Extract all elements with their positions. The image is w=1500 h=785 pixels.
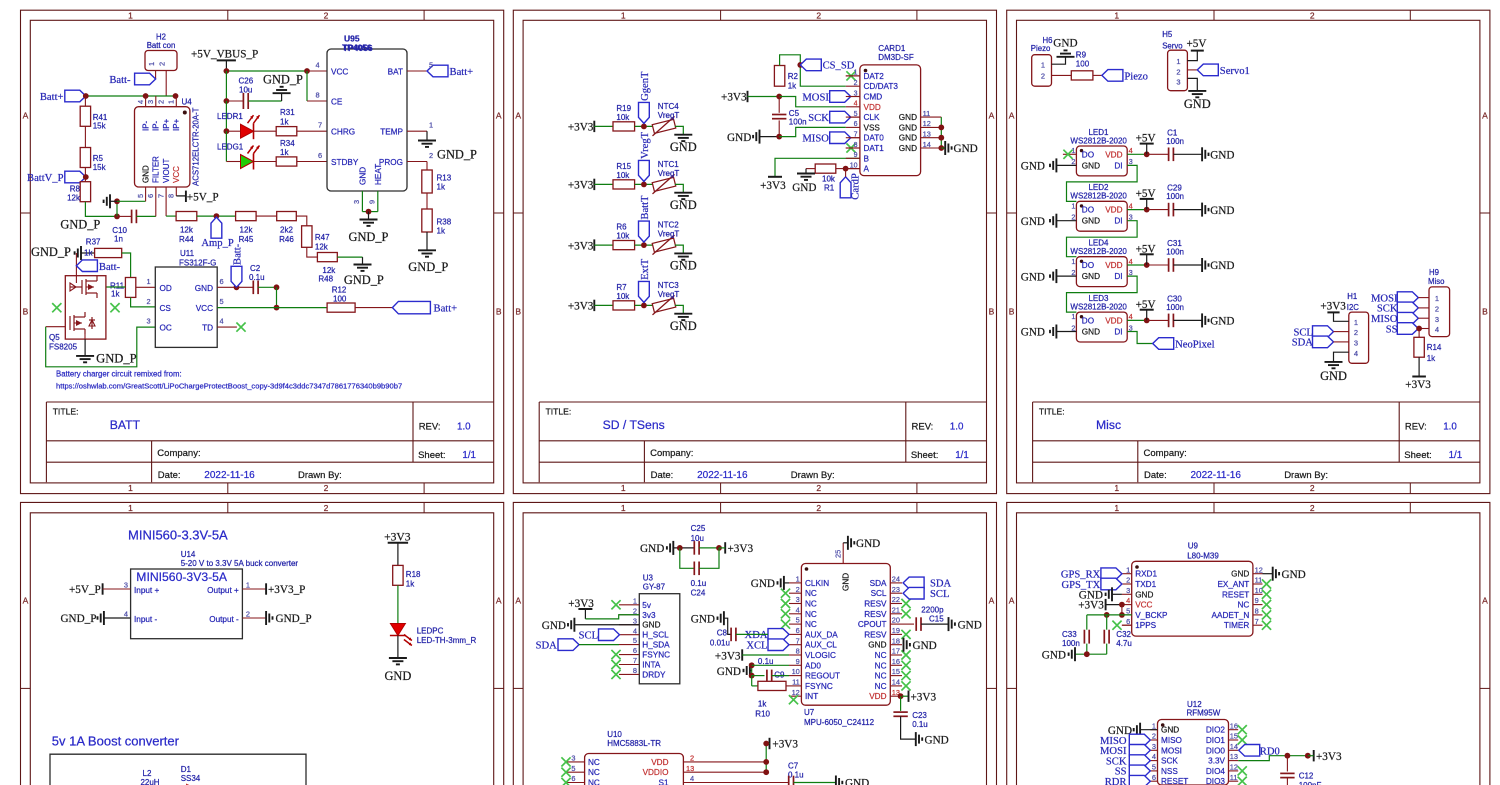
svg-text:10k: 10k [616, 113, 630, 122]
svg-text:10k: 10k [616, 232, 630, 241]
wire DI to NeoPixel [1127, 332, 1153, 344]
svg-text:GND: GND [1082, 328, 1100, 337]
svg-text:1: 1 [1071, 312, 1075, 321]
svg-text:+3V3: +3V3 [1320, 300, 1346, 312]
power +3V3 at U7 VDD [898, 693, 904, 699]
svg-text:R1: R1 [824, 184, 835, 193]
svg-text:A: A [864, 165, 870, 174]
svg-text:2: 2 [157, 100, 166, 104]
svg-text:1: 1 [796, 575, 800, 584]
svg-text:25: 25 [833, 550, 842, 558]
svg-text:NTC2: NTC2 [658, 221, 679, 230]
U7 pin25 GND top [842, 543, 844, 564]
svg-text:WS2812B-2020: WS2812B-2020 [1070, 247, 1127, 256]
ground GND right LED2 [1201, 203, 1203, 217]
svg-text:Sheet:: Sheet: [418, 450, 445, 461]
svg-text:3: 3 [1354, 339, 1358, 348]
svg-text:1k: 1k [280, 117, 289, 126]
svg-text:H_SCL: H_SCL [642, 631, 669, 640]
svg-text:100n: 100n [1166, 303, 1184, 312]
svg-text:1: 1 [1354, 318, 1358, 327]
svg-text:AADET_N: AADET_N [1212, 611, 1250, 620]
svg-text:DO: DO [1082, 261, 1094, 270]
ground GND at H1 pin4 [1334, 352, 1349, 362]
svg-text:6: 6 [571, 774, 575, 783]
svg-text:2022-11-16: 2022-11-16 [1191, 470, 1242, 481]
global label SDA at U7 [903, 577, 924, 589]
svg-text:+5V: +5V [1136, 133, 1156, 145]
svg-text:A: A [1009, 596, 1015, 606]
svg-text:1: 1 [147, 62, 156, 66]
ground GND below caps [1086, 644, 1088, 655]
svg-text:1: 1 [147, 277, 151, 286]
power +5V LED1 [1127, 153, 1147, 155]
svg-text:Company:: Company: [1144, 448, 1187, 459]
svg-text:DO: DO [1082, 150, 1094, 159]
capacitor C2 [237, 286, 254, 288]
svg-text:H1: H1 [1347, 292, 1357, 301]
svg-text:OC: OC [160, 324, 172, 333]
svg-text:A: A [989, 111, 995, 121]
svg-text:+3V3: +3V3 [384, 530, 411, 543]
no-connect X U7 pin4 [781, 609, 790, 618]
svg-text:A: A [515, 596, 521, 606]
no-connect X marks Q5 [52, 303, 61, 312]
svg-text:16: 16 [892, 657, 900, 666]
svg-text:1: 1 [621, 503, 626, 513]
svg-text:2: 2 [816, 503, 821, 513]
svg-text:GND_P: GND_P [263, 72, 303, 86]
power +3V3_P output [242, 588, 266, 590]
svg-text:0.1u: 0.1u [249, 273, 265, 282]
svg-text:7: 7 [796, 636, 800, 645]
svg-text:8: 8 [633, 666, 637, 675]
wire NTC4 to ground [675, 126, 683, 134]
svg-text:1: 1 [246, 580, 250, 589]
svg-text:BATT: BATT [110, 418, 141, 432]
svg-text:GND: GND [1184, 97, 1211, 111]
svg-text:NC: NC [588, 768, 600, 777]
svg-text:R34: R34 [280, 139, 295, 148]
no-connect X U9 pin11 [1262, 579, 1271, 588]
svg-text:Battery charger circuit remixe: Battery charger circuit remixed from: [56, 369, 182, 378]
wire NTC3 to ground [675, 305, 683, 313]
svg-text:1: 1 [1114, 483, 1119, 493]
svg-text:DAT1: DAT1 [864, 144, 885, 153]
svg-text:2: 2 [324, 503, 329, 513]
svg-text:3v3: 3v3 [642, 611, 656, 620]
svg-text:+3V3: +3V3 [1405, 379, 1431, 391]
resistor R5 [80, 148, 90, 168]
IC U7 MPU-6050_C24112 [801, 564, 890, 706]
capacitor C30 [1147, 319, 1169, 321]
power GND_P output [242, 617, 266, 619]
svg-text:4: 4 [633, 626, 637, 635]
no-connect X U7 pin14 [901, 681, 910, 690]
svg-text:2022-11-16: 2022-11-16 [697, 470, 748, 481]
svg-text:GND: GND [1210, 260, 1234, 272]
ground GND at U7 pin18 [903, 638, 905, 652]
no-connect X U10 pin3 [561, 757, 570, 766]
svg-text:FILTER: FILTER [152, 156, 161, 183]
svg-text:IP-: IP- [152, 120, 161, 131]
svg-text:100n: 100n [1062, 639, 1080, 648]
svg-text:100nF: 100nF [1299, 781, 1322, 785]
svg-text:H9: H9 [1429, 268, 1439, 277]
svg-text:+5V_P: +5V_P [69, 584, 101, 596]
svg-text:B: B [864, 154, 870, 163]
title block [46, 401, 493, 403]
wire DI chain from LED1 [1067, 165, 1138, 201]
wire GND to VSS pin6 [779, 127, 846, 136]
svg-text:C2: C2 [250, 264, 261, 273]
global label SDA [1313, 336, 1334, 348]
svg-text:3: 3 [1435, 315, 1439, 324]
no-connect X U12 pin11 [1238, 777, 1247, 785]
power +3V3 at C25 [724, 542, 726, 553]
svg-text:H_SDA: H_SDA [642, 641, 670, 650]
svg-text:+3V3: +3V3 [568, 240, 594, 252]
svg-text:7: 7 [318, 121, 322, 130]
svg-text:WS2812B-2020: WS2812B-2020 [1070, 303, 1127, 312]
svg-text:Piezo: Piezo [1124, 71, 1148, 82]
wire VCC pin5 to R12 [217, 307, 327, 309]
svg-text:CLKIN: CLKIN [805, 579, 829, 588]
global label MISO at U12 [1129, 734, 1150, 746]
no-connect X U7 pin17 [901, 650, 910, 659]
hier label CS_SD [797, 62, 803, 68]
svg-text:VCC: VCC [331, 68, 348, 77]
svg-text:VregT: VregT [658, 169, 680, 178]
svg-text:+5V: +5V [1136, 188, 1156, 200]
hier label Piezo [1093, 74, 1102, 76]
svg-text:C12: C12 [1299, 772, 1314, 781]
svg-text:3: 3 [1126, 586, 1130, 595]
svg-text:GND: GND [542, 620, 566, 632]
title block [1033, 401, 1480, 403]
svg-text:DRDY: DRDY [642, 670, 666, 679]
svg-text:3: 3 [146, 100, 155, 104]
wire Batt+ rail [86, 95, 177, 97]
svg-text:VCC: VCC [172, 166, 181, 183]
svg-text:LEDPC: LEDPC [417, 626, 444, 635]
no-connect X U7 pin22 [901, 599, 910, 608]
svg-text:9: 9 [796, 657, 800, 666]
svg-text:15k: 15k [93, 122, 107, 131]
svg-text:GND: GND [1082, 272, 1100, 281]
svg-text:1: 1 [633, 596, 637, 605]
wire R2 top to CD/DAT3 [780, 55, 846, 86]
svg-text:R7: R7 [616, 283, 627, 292]
sheet border frame [513, 10, 996, 493]
ground GND_P above C26 [281, 93, 283, 101]
svg-text:1/1: 1/1 [1449, 450, 1463, 461]
svg-text:GND_P: GND_P [437, 147, 477, 161]
resistor R2 [774, 66, 784, 87]
svg-text:2: 2 [1354, 328, 1358, 337]
power +5V_P at U4 pin8 [175, 187, 177, 196]
svg-text:2: 2 [429, 151, 433, 160]
resistor R7 [613, 301, 635, 310]
svg-text:Batt+: Batt+ [434, 303, 458, 314]
svg-text:TP4056: TP4056 [343, 43, 373, 53]
wire R46 to R47 [296, 216, 307, 226]
svg-text:U10: U10 [607, 730, 622, 739]
svg-text:VIOUT: VIOUT [162, 158, 171, 183]
svg-text:5: 5 [429, 61, 433, 70]
hier label NeoPixel [1153, 338, 1174, 350]
svg-text:5: 5 [220, 297, 224, 306]
svg-text:7: 7 [1255, 617, 1259, 626]
svg-text:TITLE:: TITLE: [1039, 406, 1065, 416]
no-connect X at TD [217, 326, 237, 328]
svg-text:BAT: BAT [388, 68, 403, 77]
hier label BattT [639, 221, 650, 242]
svg-text:GND: GND [899, 123, 917, 132]
svg-text:R6: R6 [616, 223, 627, 232]
wire R41-R5 [84, 126, 86, 147]
svg-text:VregT: VregT [658, 290, 680, 299]
resistor R10 [751, 676, 753, 686]
svg-text:GND_P: GND_P [408, 260, 448, 274]
svg-text:Date:: Date: [158, 470, 181, 481]
svg-text:GND: GND [1210, 205, 1234, 217]
svg-text:1: 1 [1126, 565, 1130, 574]
svg-text:+3V3: +3V3 [568, 122, 594, 134]
svg-text:NTC3: NTC3 [658, 281, 679, 290]
svg-text:GND: GND [1042, 650, 1066, 662]
wire R44 to R45 with Amp_P node [197, 215, 236, 217]
svg-text:2: 2 [324, 483, 329, 493]
wire R11 to CS [131, 297, 156, 307]
svg-text:16: 16 [1230, 721, 1238, 730]
svg-text:100: 100 [333, 295, 347, 304]
global label SCK at U12 [1129, 755, 1150, 767]
svg-text:4: 4 [1152, 752, 1156, 761]
global label SS at H9 [1397, 323, 1418, 335]
svg-text:5v: 5v [642, 601, 652, 610]
svg-text:12k: 12k [315, 243, 329, 252]
svg-text:2: 2 [1152, 732, 1156, 741]
svg-text:DO: DO [1082, 206, 1094, 215]
svg-text:DM3D-SF: DM3D-SF [878, 53, 914, 62]
svg-text:10k: 10k [616, 292, 630, 301]
svg-text:1: 1 [1435, 294, 1439, 303]
svg-text:GND: GND [954, 143, 978, 155]
svg-text:NSS: NSS [1161, 767, 1178, 776]
power +3V3 below R14 [1418, 357, 1420, 376]
svg-text:1k: 1k [111, 290, 120, 299]
wire R45-R46 [256, 215, 277, 217]
svg-text:NC: NC [875, 682, 887, 691]
wire GND to U4 pin5 [117, 200, 146, 202]
svg-text:GND: GND [691, 614, 715, 626]
svg-text:ExtT: ExtT [640, 258, 651, 280]
svg-text:1: 1 [1176, 57, 1180, 66]
no-connect X U3 pin1 [611, 600, 620, 609]
svg-text:SCL: SCL [930, 589, 949, 600]
svg-text:7: 7 [157, 194, 166, 198]
svg-text:GND: GND [727, 132, 751, 144]
resistor R13 [422, 170, 432, 193]
wire DI chain from LED2 [1067, 221, 1138, 257]
svg-text:7: 7 [633, 656, 637, 665]
svg-text:Batt-: Batt- [99, 262, 121, 273]
ground GND right LED3 [1201, 313, 1203, 327]
svg-text:14: 14 [1230, 742, 1238, 751]
svg-text:A: A [496, 596, 502, 606]
LED LEDR1 [225, 101, 227, 131]
ground GND below LEDPC [397, 636, 399, 659]
svg-text:GND: GND [1021, 271, 1045, 283]
svg-text:LEDR1: LEDR1 [217, 112, 243, 121]
no-connect X LED1 DO [1063, 153, 1077, 155]
svg-text:MISO: MISO [802, 134, 829, 145]
svg-text:1k: 1k [1427, 354, 1436, 363]
svg-text:C26: C26 [239, 76, 254, 85]
wire R13-R38 [426, 193, 428, 209]
svg-text:3: 3 [352, 200, 361, 204]
svg-text:1k: 1k [788, 81, 797, 90]
global label MOSI [830, 91, 851, 103]
svg-text:+5V: +5V [1136, 299, 1156, 311]
svg-text:GND_P: GND_P [60, 613, 96, 625]
wires U95 bottom pins to ground [361, 191, 363, 212]
svg-text:DAT2: DAT2 [864, 72, 885, 81]
resistor R34 [254, 161, 277, 163]
wire B pin to +3V3 [775, 158, 860, 177]
svg-text:CHRG: CHRG [331, 128, 355, 137]
svg-text:12k: 12k [240, 226, 254, 235]
svg-text:NC: NC [588, 779, 600, 785]
svg-text:VregT: VregT [658, 230, 680, 239]
svg-text:Batt con: Batt con [147, 41, 176, 50]
svg-text:RXD1: RXD1 [1135, 570, 1157, 579]
svg-text:A: A [23, 111, 29, 121]
svg-text:8: 8 [796, 647, 800, 656]
svg-text:VregT: VregT [658, 111, 680, 120]
title block [539, 401, 986, 403]
svg-text:A: A [23, 596, 29, 606]
svg-text:R12: R12 [332, 286, 347, 295]
global label GPS_RX [1101, 568, 1122, 580]
svg-text:ACS712ELCTR-20A-T: ACS712ELCTR-20A-T [192, 107, 201, 186]
svg-text:10u: 10u [239, 85, 252, 94]
svg-text:GND: GND [1135, 590, 1153, 599]
svg-text:4: 4 [124, 609, 128, 618]
wire +5V rail to U95 VCC [226, 70, 307, 72]
svg-text:12k: 12k [180, 226, 194, 235]
power +3V3 at U10 [765, 744, 767, 773]
svg-text:1.0: 1.0 [950, 421, 964, 432]
svg-text:4: 4 [796, 605, 800, 614]
svg-text:FSYNC: FSYNC [805, 682, 833, 691]
svg-text:Input -: Input - [134, 615, 157, 624]
svg-text:GND: GND [1021, 161, 1045, 173]
svg-text:1: 1 [128, 11, 133, 21]
svg-text:SCL: SCL [871, 589, 887, 598]
ground GND at R1 [806, 168, 815, 170]
svg-text:GND: GND [1210, 150, 1234, 162]
svg-text:2200p: 2200p [921, 605, 944, 614]
svg-text:L2: L2 [143, 769, 152, 778]
svg-text:SDA: SDA [870, 579, 887, 588]
svg-text:B: B [23, 307, 29, 317]
svg-text:6: 6 [796, 626, 800, 635]
svg-text:RESV: RESV [864, 600, 887, 609]
thermistor NTC3 [652, 298, 676, 312]
hier label Batt- lower [75, 253, 77, 276]
global label SCL at U7 [903, 587, 924, 599]
svg-text:AD0: AD0 [805, 661, 821, 670]
svg-text:REGOUT: REGOUT [805, 672, 840, 681]
sheet border frame [21, 502, 504, 785]
wire OD net [106, 286, 126, 288]
svg-text:GgenT: GgenT [640, 71, 651, 101]
svg-text:23: 23 [892, 585, 900, 594]
resistor R45 [236, 212, 257, 221]
sheet border frame [1007, 502, 1490, 785]
svg-text:GND: GND [1282, 569, 1306, 581]
svg-text:HEAT: HEAT [374, 164, 383, 185]
wire +3V3 to VDD pin4 [779, 97, 846, 107]
svg-text:17: 17 [892, 647, 900, 656]
wire H2 pin2 down [165, 71, 167, 97]
wire Q5 left pin [46, 326, 66, 328]
svg-text:+3V3: +3V3 [721, 91, 747, 103]
no-connect X U3 pin6 [611, 650, 620, 659]
power +5V LED3 [1127, 319, 1147, 321]
wire R5-R8 [84, 168, 86, 182]
ground GND at U9 pin12 [1263, 573, 1273, 575]
svg-text:1PPS: 1PPS [1135, 621, 1156, 630]
IC boost converter box [50, 754, 306, 785]
svg-text:Sheet:: Sheet: [1404, 450, 1431, 461]
svg-text:VDD: VDD [864, 103, 881, 112]
svg-text:0.1u: 0.1u [758, 657, 774, 666]
svg-text:GND: GND [640, 543, 664, 555]
ground GND_P below U95 [368, 212, 370, 220]
svg-text:MPU-6050_C24112: MPU-6050_C24112 [804, 718, 875, 727]
svg-text:2: 2 [816, 11, 821, 21]
svg-text:15: 15 [892, 667, 900, 676]
svg-text:STDBY: STDBY [331, 158, 359, 167]
svg-text:1: 1 [128, 483, 133, 493]
svg-text:B: B [496, 307, 502, 317]
svg-text:1: 1 [1071, 201, 1075, 210]
svg-text:+3V3: +3V3 [911, 691, 937, 703]
svg-text:TD: TD [202, 324, 213, 333]
resistor R8 [80, 182, 90, 202]
svg-text:13: 13 [686, 764, 694, 773]
svg-text:100n: 100n [1166, 137, 1184, 146]
svg-text:C23: C23 [912, 711, 927, 720]
hier label Batt+ at BAT pin [407, 70, 427, 72]
resistor R46 [277, 212, 297, 221]
svg-text:9: 9 [1255, 596, 1259, 605]
svg-text:R13: R13 [437, 174, 452, 183]
svg-text:WS2812B-2020: WS2812B-2020 [1070, 192, 1127, 201]
svg-text:100n: 100n [1166, 248, 1184, 257]
svg-text:2: 2 [1176, 67, 1180, 76]
svg-text:https://oshwlab.com/GreatScott: https://oshwlab.com/GreatScott/LiPoCharg… [56, 382, 402, 391]
ground GND_P below R48 [354, 264, 372, 266]
svg-text:1: 1 [429, 121, 433, 130]
svg-text:TITLE:: TITLE: [53, 406, 79, 416]
svg-text:HMC5883L-TR: HMC5883L-TR [607, 739, 661, 748]
svg-text:+3V3_P: +3V3_P [268, 584, 305, 596]
svg-text:V_BCKP: V_BCKP [1135, 611, 1168, 620]
